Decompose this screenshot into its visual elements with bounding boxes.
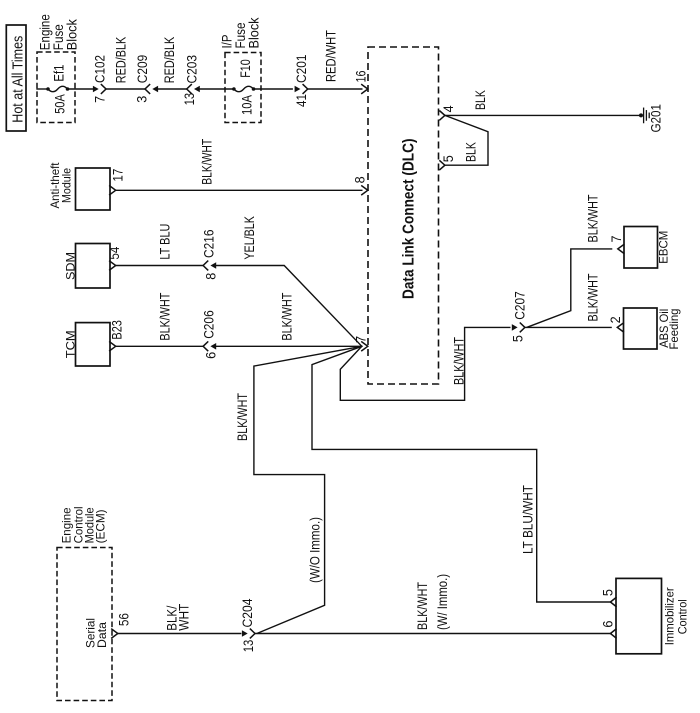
svg-text:5: 5 — [441, 155, 456, 162]
wire fuse Ef1 to connector C102 (RED/BLK feed) — [68, 88, 94, 90]
EBCM pin 7 chevron — [618, 245, 624, 254]
svg-text:BLK: BLK — [464, 142, 479, 162]
DLC pin 5 chevron — [440, 161, 445, 170]
connector C203 — [187, 85, 200, 94]
svg-text:(ECM): (ECM) — [94, 509, 108, 543]
wire ECM 56 to C204 BLK/WHT — [118, 633, 241, 635]
svg-text:Data: Data — [95, 622, 109, 648]
svg-text:41: 41 — [294, 94, 309, 107]
svg-text:Block: Block — [247, 17, 262, 48]
ECM pin 56 chevron — [112, 629, 118, 638]
SDM box — [76, 244, 111, 289]
svg-text:C216: C216 — [202, 230, 217, 259]
svg-text:B23: B23 — [110, 320, 125, 340]
svg-text:7: 7 — [609, 236, 624, 243]
fuse F10 element — [234, 86, 254, 91]
svg-text:BLK: BLK — [473, 90, 488, 110]
fuse Ef1 left terminal — [46, 87, 50, 91]
svg-text:5: 5 — [511, 335, 526, 342]
wire SDM 54 to C216 LT BLU — [116, 265, 203, 267]
connector C204 — [242, 629, 255, 638]
anti-theft pin 17 chevron — [110, 186, 116, 195]
data link connect DLC (dashed box) — [368, 47, 439, 384]
svg-text:8: 8 — [353, 176, 368, 183]
connector C201 — [295, 85, 308, 94]
svg-text:BLK/WHT: BLK/WHT — [586, 195, 601, 243]
immobilizer control box — [616, 578, 662, 653]
connector C102 — [93, 85, 106, 94]
svg-text:YEL/BLK: YEL/BLK — [242, 216, 257, 260]
svg-text:13: 13 — [182, 93, 197, 106]
svg-text:LT BLU/WHT: LT BLU/WHT — [521, 485, 536, 554]
TCM box — [76, 323, 111, 366]
svg-text:TCM: TCM — [64, 330, 78, 358]
svg-text:7: 7 — [92, 96, 107, 103]
fuse F10 right terminal — [252, 87, 256, 91]
immobilizer pin 5 chevron — [610, 598, 616, 607]
svg-text:3: 3 — [135, 96, 150, 103]
svg-text:Control: Control — [676, 599, 690, 634]
svg-text:Immobilizer: Immobilizer — [663, 587, 677, 645]
wire DLC pin7 to C207 BLK/WHT (down-around) — [340, 327, 510, 400]
svg-text:54: 54 — [107, 246, 122, 259]
svg-text:BLK/WHT: BLK/WHT — [586, 274, 601, 322]
svg-text:C206: C206 — [202, 310, 217, 339]
connector C207 — [512, 323, 525, 332]
svg-text:17: 17 — [111, 169, 126, 182]
svg-text:56: 56 — [117, 613, 132, 626]
wire stub into fuse Ef1 — [37, 88, 48, 90]
immobilizer pin 6 chevron — [610, 629, 616, 638]
svg-text:C207: C207 — [513, 291, 528, 320]
fuse F10 left terminal — [232, 87, 236, 91]
svg-text:WHT: WHT — [177, 604, 192, 631]
wire DLC pin7 to Immobilizer pin 5 LT BLU/WHT — [312, 346, 611, 602]
svg-text:SDM: SDM — [64, 252, 78, 280]
ABS Oil Feeding box — [624, 308, 658, 349]
svg-text:RED/WHT: RED/WHT — [323, 30, 338, 82]
svg-text:BLK/WHT: BLK/WHT — [280, 293, 295, 341]
svg-text:BLK/WHT: BLK/WHT — [452, 337, 467, 385]
fuse Ef1 element — [48, 86, 68, 91]
svg-text:C209: C209 — [135, 55, 150, 84]
connector C209 — [145, 85, 158, 94]
anti-theft module box — [76, 168, 111, 210]
power label box "Hot at All Times" — [6, 25, 26, 131]
svg-text:BLK/WHT: BLK/WHT — [158, 293, 173, 341]
svg-text:2: 2 — [608, 316, 623, 323]
svg-text:5: 5 — [601, 589, 616, 596]
wire C203 to I/P fuse block — [197, 88, 234, 90]
SDM pin 54 chevron — [110, 261, 116, 270]
connector C206 — [203, 342, 216, 351]
svg-text:F10: F10 — [238, 59, 253, 78]
wire C207 to ABS pin 2 BLK/WHT — [525, 326, 611, 328]
svg-text:BLK/WHT: BLK/WHT — [200, 139, 215, 185]
svg-text:LT BLU: LT BLU — [158, 224, 173, 260]
connector C216 — [203, 261, 216, 270]
wire F10 to C201 — [254, 88, 293, 90]
svg-text:Data Link Connect (DLC): Data Link Connect (DLC) — [401, 139, 418, 300]
svg-text:50A: 50A — [53, 94, 68, 114]
wire anti-theft 17 to DLC pin 8 BLK/WHT — [116, 189, 362, 191]
wire C209 to C203 RED/BLK — [156, 88, 187, 90]
engine fuse block (dashed) — [37, 52, 75, 123]
svg-text:Ef1: Ef1 — [52, 65, 67, 82]
ground G201 symbol — [639, 108, 649, 122]
fuse Ef1 right terminal — [66, 87, 70, 91]
svg-text:EBCM: EBCM — [657, 231, 671, 264]
TCM pin B23 chevron — [110, 342, 116, 351]
wire C201 to DLC pin 16 RED/WHT — [308, 88, 362, 90]
svg-text:RED/BLK: RED/BLK — [114, 37, 129, 84]
svg-text:Hot at All Times: Hot at All Times — [9, 36, 26, 123]
svg-text:6: 6 — [601, 621, 616, 628]
svg-text:Feeding: Feeding — [667, 309, 681, 350]
ABS pin 2 chevron — [617, 323, 623, 332]
svg-text:Module: Module — [60, 168, 74, 203]
EBCM box — [624, 227, 658, 269]
wire C216 to DLC pin 7 YEL/BLK — [214, 266, 362, 347]
wire C102 to C209 RED/BLK — [106, 88, 145, 90]
svg-text:C102: C102 — [92, 55, 107, 83]
svg-text:8: 8 — [204, 273, 219, 280]
svg-text:G201: G201 — [649, 104, 664, 133]
svg-text:C201: C201 — [294, 55, 309, 84]
DLC pin 8 chevron — [362, 186, 368, 195]
wire C204 to Immobilizer pin 6 BLK/WHT (W/ Immo.) — [255, 633, 611, 635]
svg-text:4: 4 — [441, 105, 456, 112]
svg-text:BLK/WHT: BLK/WHT — [235, 393, 250, 441]
wire TCM B23 to C206 BLK/WHT — [116, 345, 203, 347]
wire DLC pin 4 to ground G201 BLK — [445, 114, 641, 116]
DLC pin 7 chevron — [362, 342, 368, 351]
svg-text:13: 13 — [241, 640, 256, 653]
svg-text:6: 6 — [204, 352, 219, 359]
I/P fuse block (dashed) — [225, 53, 261, 123]
svg-text:(W/O Immo.): (W/O Immo.) — [308, 517, 323, 583]
svg-text:Block: Block — [65, 19, 80, 50]
DLC pin 4 chevron — [440, 111, 445, 120]
wire C206 to DLC pin 7 BLK/WHT — [214, 345, 362, 347]
svg-text:(W/ Immo.): (W/ Immo.) — [435, 574, 450, 630]
wire DLC pin 5 tie to pin 4 BLK — [445, 115, 488, 165]
svg-text:RED/BLK: RED/BLK — [162, 37, 177, 84]
svg-text:BLK/WHT: BLK/WHT — [415, 582, 430, 630]
engine control module ECM (dashed) — [57, 548, 112, 701]
wire C207 branch to EBCM pin 7 BLK/WHT — [527, 249, 611, 327]
svg-text:16: 16 — [354, 71, 369, 83]
wire DLC pin7 to C204 (W/O Immo.) — [254, 346, 362, 633]
svg-text:10A: 10A — [240, 95, 255, 115]
svg-text:C203: C203 — [185, 55, 200, 84]
DLC pin 16 chevron — [362, 85, 368, 94]
svg-text:C204: C204 — [240, 598, 255, 627]
